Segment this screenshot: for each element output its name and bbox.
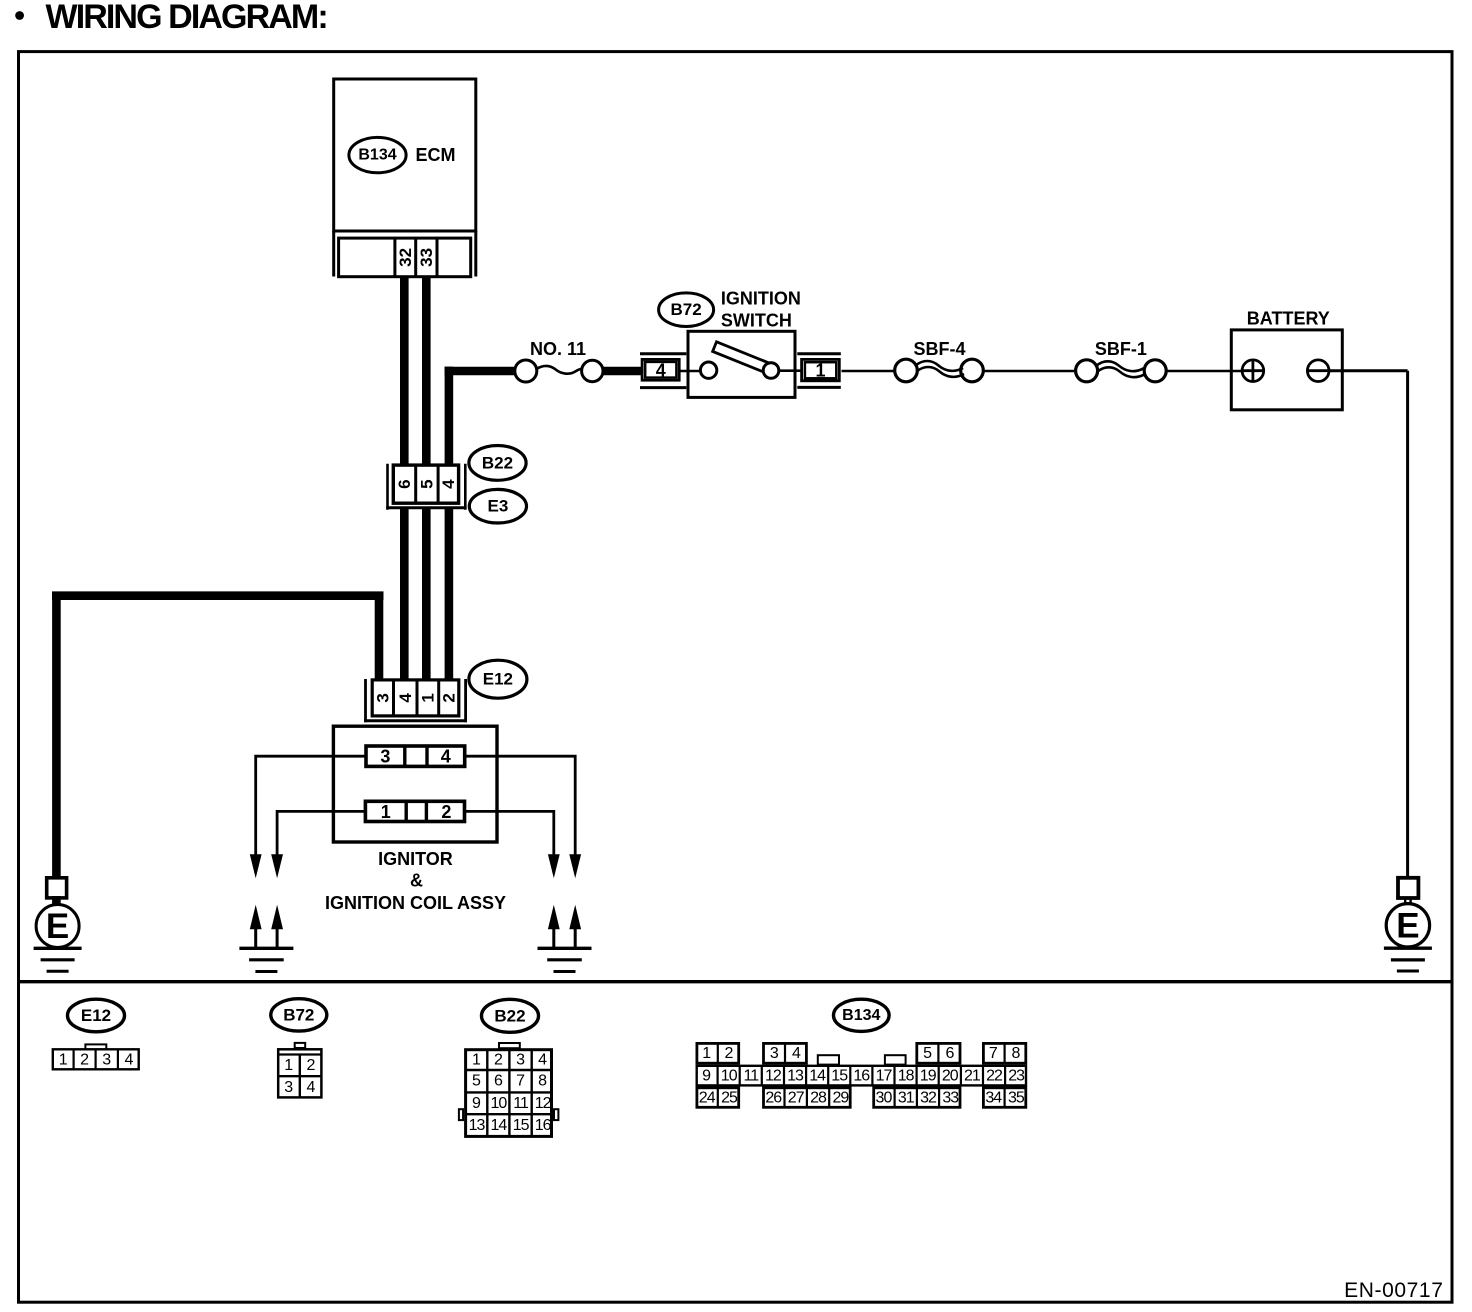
B72 pinout grid (278, 1049, 321, 1097)
svg-text:10: 10 (721, 1067, 738, 1084)
B134 top tab A (818, 1055, 839, 1064)
svg-text:B134: B134 (842, 1007, 880, 1024)
svg-text:4: 4 (439, 479, 458, 489)
svg-text:SBF-1: SBF-1 (1095, 339, 1147, 359)
ignitor box (333, 726, 497, 842)
connector E12 bracket (366, 679, 466, 722)
svg-text:9: 9 (472, 1095, 481, 1112)
svg-text:34: 34 (985, 1089, 1002, 1106)
svg-text:3: 3 (380, 747, 390, 767)
wire ECM33 to B22 (422, 277, 431, 465)
connector B22/E3 bracket (388, 464, 466, 510)
down arrowheads (250, 854, 262, 878)
svg-text:15: 15 (831, 1067, 848, 1084)
svg-text:7: 7 (989, 1045, 998, 1062)
svg-text:12: 12 (765, 1067, 782, 1084)
wire B22 to E12 pin4 (400, 508, 409, 680)
B134 bottom row cells 34 35 (983, 1088, 1025, 1108)
svg-text:12: 12 (535, 1095, 552, 1112)
E12 pinout tab (85, 1044, 106, 1049)
svg-text:13: 13 (469, 1117, 486, 1134)
svg-text:SBF-4: SBF-4 (913, 339, 965, 359)
svg-text:1: 1 (381, 802, 391, 822)
svg-text:1: 1 (472, 1051, 481, 1068)
left ground E (36, 905, 79, 948)
B22 oval label (469, 446, 526, 481)
svg-text:1: 1 (284, 1057, 293, 1074)
title bullet (15, 11, 24, 20)
ECM connector box pins 32 33 (339, 238, 471, 277)
B22 pinout tab (499, 1043, 520, 1048)
svg-text:IGNITION: IGNITION (721, 288, 801, 308)
svg-text:EN-00717: EN-00717 (1344, 1279, 1443, 1302)
svg-text:4: 4 (124, 1051, 133, 1068)
E3 oval label (469, 489, 526, 523)
svg-text:4: 4 (306, 1079, 315, 1096)
svg-text:18: 18 (898, 1067, 915, 1084)
B134 top tab B (885, 1055, 906, 1064)
B72 pinout oval (271, 999, 327, 1031)
svg-text:25: 25 (721, 1089, 738, 1106)
svg-text:7: 7 (516, 1073, 525, 1090)
fusible link SBF-4 (895, 359, 918, 382)
svg-text:SWITCH: SWITCH (721, 310, 792, 330)
svg-text:11: 11 (743, 1067, 759, 1084)
svg-text:17: 17 (876, 1067, 893, 1084)
B72 oval label (659, 293, 714, 327)
svg-text:E3: E3 (488, 497, 509, 516)
svg-text:6: 6 (494, 1073, 503, 1090)
svg-text:19: 19 (920, 1067, 937, 1084)
wire SBF-4 to SBF-1 (983, 370, 1076, 373)
wire pin3 to left arrow (256, 756, 366, 854)
svg-text:B22: B22 (494, 1006, 525, 1025)
wire switch to connector 1 (779, 369, 804, 372)
svg-text:16: 16 (535, 1117, 552, 1134)
svg-text:29: 29 (833, 1089, 850, 1106)
svg-text:2: 2 (725, 1045, 734, 1062)
svg-text:4: 4 (538, 1051, 547, 1068)
svg-text:35: 35 (1008, 1089, 1025, 1106)
svg-text:6: 6 (945, 1045, 954, 1062)
svg-text:5: 5 (472, 1073, 481, 1090)
svg-text:22: 22 (986, 1067, 1003, 1084)
svg-text:1: 1 (59, 1051, 68, 1068)
svg-text:8: 8 (538, 1073, 547, 1090)
wire B22 to E12 pin1 (422, 508, 431, 680)
connector 4 box (642, 359, 679, 380)
svg-text:10: 10 (491, 1095, 508, 1112)
svg-text:3: 3 (516, 1051, 525, 1068)
fusible link SBF-1 (1076, 360, 1098, 382)
svg-text:13: 13 (787, 1067, 804, 1084)
svg-text:9: 9 (702, 1067, 711, 1084)
svg-text:26: 26 (765, 1089, 782, 1106)
svg-text:E: E (46, 907, 69, 946)
B134 bottom row cells 24 25 (697, 1088, 739, 1108)
svg-text:B72: B72 (283, 1005, 314, 1024)
svg-text:11: 11 (513, 1095, 529, 1112)
B134 bottom row cells 30-33 (874, 1088, 960, 1108)
svg-text:5: 5 (417, 479, 436, 488)
svg-text:2: 2 (494, 1051, 503, 1068)
svg-text:3: 3 (373, 693, 392, 702)
wire pin1 to left arrow (277, 811, 365, 854)
svg-text:14: 14 (491, 1117, 508, 1134)
wire SBF-1 to battery (1166, 370, 1242, 373)
B134 top row cells 3 4 (764, 1043, 807, 1063)
B72 pinout tab (295, 1043, 306, 1048)
B134 top row cells 1 2 (697, 1043, 739, 1063)
ground left pair (239, 947, 293, 950)
svg-text:ECM: ECM (416, 145, 456, 165)
B134 bottom row cells 26-29 (764, 1088, 851, 1108)
svg-text:B22: B22 (482, 453, 513, 472)
wire ECM32 to B22 (400, 277, 409, 465)
B134 top row cells 5 6 (917, 1043, 960, 1063)
svg-text:E12: E12 (483, 670, 513, 689)
svg-text:1: 1 (815, 361, 825, 381)
connector E12 box pins 3 4 1 2 (372, 680, 459, 716)
svg-text:4: 4 (441, 747, 451, 767)
ignitor pins 3 4 box (366, 746, 465, 766)
svg-text:2: 2 (439, 693, 458, 702)
svg-text:1: 1 (702, 1045, 711, 1062)
wire ground branch down to E12 pin3 (375, 596, 384, 680)
wire ground branch horizontal (52, 591, 384, 600)
svg-text:33: 33 (942, 1089, 959, 1106)
svg-text:33: 33 (417, 248, 436, 267)
svg-text:B72: B72 (671, 300, 702, 319)
svg-text:4: 4 (396, 693, 415, 703)
left ground terminal square (47, 878, 67, 898)
svg-text:32: 32 (920, 1089, 937, 1106)
connector 1 bracket (797, 354, 841, 388)
wire fuse to connector 4 (603, 367, 643, 376)
svg-text:1: 1 (418, 693, 437, 702)
svg-text:16: 16 (853, 1067, 870, 1084)
B134 middle row cells 9-23 (697, 1066, 1026, 1086)
svg-text:2: 2 (80, 1051, 89, 1068)
up arrows to grounds (250, 905, 262, 929)
ignitor pins 1 2 box (365, 801, 464, 821)
B22 pinout side tabs (459, 1109, 463, 1120)
svg-text:14: 14 (809, 1067, 826, 1084)
wire NO11 corner horizontal (445, 367, 515, 376)
E12 oval label (469, 660, 527, 698)
svg-text:2: 2 (306, 1057, 315, 1074)
connector 4 bracket (640, 354, 686, 388)
switch contact left (700, 362, 716, 378)
svg-text:15: 15 (513, 1117, 530, 1134)
wire connector4 to switch contact (680, 370, 702, 373)
wire NO11 branch to B22 (445, 367, 454, 465)
svg-text:NO. 11: NO. 11 (530, 339, 586, 359)
wire B22 to E12 pin2 (445, 508, 454, 680)
svg-text:IGNITION COIL ASSY: IGNITION COIL ASSY (325, 893, 506, 913)
svg-text:E: E (1396, 906, 1419, 945)
left ground neck (52, 896, 61, 906)
svg-text:WIRING DIAGRAM:: WIRING DIAGRAM: (46, 0, 327, 36)
connector B134 oval label (349, 137, 406, 172)
wire connector1 to SBF-4 (842, 370, 897, 373)
B134 pinout oval (834, 999, 890, 1031)
svg-text:4: 4 (656, 360, 666, 380)
switch lever (713, 342, 774, 375)
svg-text:B134: B134 (358, 147, 396, 164)
svg-text:20: 20 (942, 1067, 959, 1084)
ECM connector side stubs (334, 231, 476, 277)
B22 pinout oval (482, 999, 539, 1032)
svg-text:8: 8 (1011, 1045, 1020, 1062)
svg-text:21: 21 (964, 1067, 981, 1084)
B134 top row cells 7 8 (983, 1043, 1025, 1063)
svg-text:BATTERY: BATTERY (1247, 309, 1330, 329)
section divider line (17, 980, 1454, 983)
battery plus terminal (1242, 360, 1264, 382)
svg-text:2: 2 (441, 802, 451, 822)
svg-text:28: 28 (810, 1089, 827, 1106)
right ground E (1386, 904, 1429, 947)
ignition switch box B72 (688, 331, 795, 397)
switch contact right (763, 363, 779, 379)
connector B22/E3 box pins 6 5 4 (393, 465, 458, 503)
E12 pinout oval (68, 999, 125, 1032)
fuse NO.11 (515, 360, 537, 382)
right ground neck (1405, 897, 1410, 905)
wire battery to right ground (1329, 371, 1408, 877)
svg-text:27: 27 (788, 1089, 805, 1106)
svg-text:23: 23 (1008, 1067, 1025, 1084)
svg-text:32: 32 (396, 248, 415, 267)
svg-text:30: 30 (876, 1089, 893, 1106)
svg-text:&: & (410, 870, 423, 890)
svg-text:E12: E12 (81, 1006, 111, 1025)
svg-text:IGNITOR: IGNITOR (378, 849, 453, 869)
B22 pinout grid (466, 1050, 552, 1137)
svg-text:31: 31 (898, 1089, 915, 1106)
ECM box (334, 79, 476, 231)
E12 pinout grid (53, 1049, 139, 1069)
svg-text:3: 3 (102, 1051, 111, 1068)
wire pin2 to right arrow (465, 811, 554, 854)
ground right pair (538, 947, 592, 950)
svg-text:5: 5 (923, 1045, 932, 1062)
right ground terminal square (1398, 878, 1418, 898)
wire pin4 to right arrow (465, 756, 576, 854)
svg-text:4: 4 (792, 1045, 801, 1062)
svg-text:24: 24 (699, 1089, 716, 1106)
battery box (1231, 330, 1342, 410)
connector 1 box (802, 359, 840, 380)
battery minus terminal (1307, 360, 1329, 382)
wire left ground drop (52, 592, 61, 877)
svg-text:6: 6 (395, 479, 414, 488)
svg-text:3: 3 (770, 1045, 779, 1062)
svg-text:3: 3 (284, 1079, 293, 1096)
